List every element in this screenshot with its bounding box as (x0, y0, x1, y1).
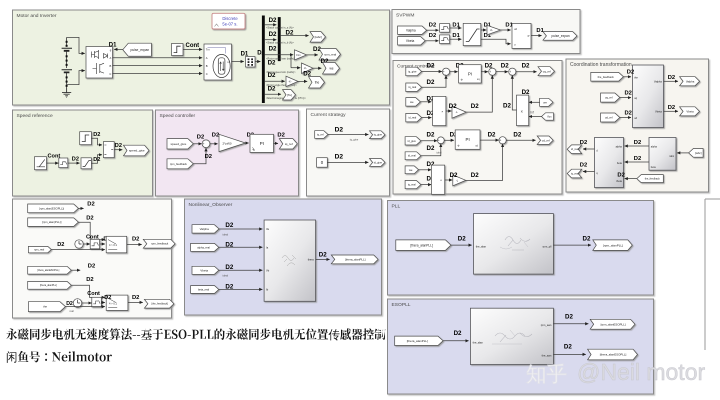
svg-text:we: we (329, 66, 333, 70)
rate transition 2 (440, 35, 450, 44)
svg-text:D2: D2 (205, 154, 212, 160)
svg-text:Cont: Cont (48, 154, 61, 160)
wire product1 to gain L (446, 110, 452, 112)
svg-text:Vbeta: Vbeta (406, 39, 415, 43)
svg-text:Vbeta: Vbeta (655, 110, 662, 114)
svg-text:D2: D2 (225, 264, 233, 271)
gain pole pairs -K- (302, 63, 314, 73)
svg-text:speed_give: speed_give (129, 149, 145, 153)
wire eso theta out (553, 353, 585, 355)
svg-text:PLL: PLL (392, 204, 401, 210)
svg-text:iq_give: iq_give (408, 69, 417, 73)
svg-text:D2: D2 (269, 31, 277, 38)
wire stator current is_b (265, 39, 277, 41)
from tag Vbeta obs (192, 266, 219, 274)
svg-text:alpha: alpha (651, 145, 658, 148)
svg-text:-K-: -K- (288, 80, 291, 83)
svg-text:ESOPLL: ESOPLL (392, 302, 411, 308)
wire Valpha to rate transition (427, 29, 439, 31)
sector calculation block (463, 23, 481, 45)
svg-text:D2: D2 (197, 135, 204, 141)
rate transition speed ref (59, 158, 68, 168)
svg-text:PI: PI (466, 137, 470, 142)
svg-text:alpha_real: alpha_real (197, 245, 210, 249)
svg-text:ud_ref: ud_ref (605, 116, 613, 120)
wire the_feedback to block (623, 76, 631, 78)
svg-text:D2: D2 (225, 283, 233, 290)
svg-text:D2: D2 (104, 295, 111, 301)
wire DC positive tap (67, 37, 85, 53)
svg-text:beta: beta (651, 166, 656, 169)
svg-text:we: we (410, 100, 414, 104)
svg-text:D2: D2 (427, 132, 435, 139)
svg-text:D2: D2 (225, 241, 233, 248)
from tag alpha_real obs (191, 243, 219, 251)
goto tag thera_alanESOPLL (588, 349, 638, 360)
from tag Vbeta svpwm (398, 37, 426, 45)
wire we to product3 (419, 169, 432, 171)
svg-text:B: B (206, 64, 208, 68)
from tag Valpha svpwm (398, 26, 427, 34)
from tag pulse_expan (123, 43, 152, 56)
svg-text:id_real: id_real (408, 116, 416, 120)
wire step to mux (91, 138, 102, 145)
svg-text:D2: D2 (87, 202, 94, 208)
product block we*flux (517, 95, 529, 126)
from tag we flux (540, 98, 553, 106)
wire gain to we tag (313, 67, 321, 69)
from tag iq_give cc (406, 67, 422, 76)
svg-text:D2: D2 (269, 45, 277, 52)
abc to alphabeta transform block (649, 138, 676, 171)
svg-text:the: the (634, 76, 638, 80)
gain Lq inductance (452, 106, 466, 118)
wire switch to rpm_feedback (127, 244, 142, 246)
wire Vbeta to observer (219, 269, 263, 271)
wire rotor angle (265, 80, 285, 82)
wire Fcn to rpm_real (307, 54, 318, 56)
alphabeta to dq transform block (595, 138, 624, 188)
svg-text:Fcn: Fcn (296, 54, 301, 57)
wire the pll to switch (71, 285, 105, 297)
svg-text:Valpha: Valpha (654, 80, 662, 84)
step block Cont source (172, 44, 184, 56)
panel Nonlinear_Observer (185, 199, 382, 315)
wire sum2 to sum3 (496, 71, 508, 73)
wire PI to iq_ref (274, 142, 279, 144)
gain Fcn rpm conversion (295, 50, 307, 60)
gain svpwm -K- (487, 25, 501, 35)
svg-text:rpm_feedback: rpm_feedback (151, 242, 169, 246)
svg-text:A: A (206, 56, 208, 60)
sum ud decouple (499, 137, 506, 146)
svg-text:ideal: ideal (223, 233, 229, 237)
svg-text:D2: D2 (86, 277, 93, 283)
sum id error (437, 137, 444, 145)
wire saturation to mux (91, 155, 102, 164)
wire rpm_feedback to sum (193, 148, 206, 164)
svg-text:we: we (409, 168, 413, 172)
from tag thera_alanPLL eso (395, 336, 443, 345)
bus selector demux block (246, 57, 256, 68)
svg-text:D2: D2 (429, 23, 436, 29)
wire theta to eso block (443, 340, 469, 342)
from tag thera_alan PLL (28, 281, 72, 289)
svg-text:pulse_expan: pulse_expan (130, 48, 149, 52)
wire id_real to product1 (422, 117, 432, 119)
wire gain to pwm subsystem (501, 29, 511, 31)
svg-text:D2: D2 (634, 156, 641, 162)
watermark zhihu @Neil motor (527, 364, 567, 384)
wire torque Te (265, 93, 281, 95)
gain angle -K- (286, 76, 298, 86)
wire clock to rate transition (83, 243, 90, 245)
svg-text:Motor and Inverter: Motor and Inverter (17, 13, 57, 19)
goto tag rpm_feedback (143, 239, 175, 248)
saturation block (81, 158, 91, 169)
svg-text:C: C (206, 72, 208, 76)
wire sum2d to ud_ref (506, 139, 535, 141)
svg-text:D2: D2 (503, 103, 511, 110)
svg-text:D2: D2 (450, 172, 458, 179)
wire we into product2 (529, 101, 540, 103)
wire Vbeta to rate transition (425, 40, 438, 42)
sum speed error (202, 140, 210, 149)
goto tag id_real ct (567, 145, 582, 154)
svg-text:the_feedback: the_feedback (598, 75, 615, 79)
svg-text:D1: D1 (452, 33, 460, 39)
from tag iabc ct (689, 149, 704, 158)
svg-text:[rpm_alanPLL]: [rpm_alanPLL] (603, 243, 623, 247)
svg-text:thera: thera (308, 258, 314, 262)
switch block rpm (106, 236, 127, 253)
goto tag iabc (310, 32, 326, 42)
mux switch block speed ref (103, 142, 114, 158)
svg-text:the_alan: the_alan (476, 245, 487, 249)
from tag uq_ref ct (601, 93, 620, 102)
ground symbol (62, 88, 71, 97)
svg-text:Nonlinear_Observer: Nonlinear_Observer (189, 202, 233, 208)
svg-text:D2: D2 (427, 79, 435, 86)
svg-text:id_real: id_real (408, 154, 416, 158)
goto tag iq_real ct (567, 169, 582, 178)
svg-text:D2: D2 (627, 70, 634, 76)
wire beta between blocks (625, 161, 649, 163)
svg-text:<Stator current is_b (A)>: <Stator current is_b (A)> (266, 40, 294, 44)
goto tag iq_ref (279, 139, 297, 149)
wire flux into product2 (529, 116, 542, 118)
svg-text:D2: D2 (86, 215, 93, 221)
clock block (75, 240, 83, 248)
goto tag id_give (370, 159, 386, 167)
svg-text:Vbeta: Vbeta (200, 268, 208, 272)
panel switch-select subsystem (13, 199, 172, 318)
powergui block Discrete 5e-07s (212, 13, 245, 29)
wire rt1 to sector block (450, 27, 462, 29)
from tag id_real cc (406, 113, 422, 122)
wire gain to PI speed (246, 142, 249, 144)
svg-text:2*pi/60: 2*pi/60 (222, 142, 231, 146)
svg-text:B: B (110, 64, 112, 68)
PI controller id (455, 130, 480, 149)
caption line 2: xianyu id Neilmotor (7, 351, 112, 363)
goto tag pulse_expan (543, 32, 577, 41)
rate transition sw1 (90, 239, 99, 249)
svg-text:Speed controller: Speed controller (160, 113, 196, 119)
wire the eso stub (71, 269, 80, 271)
wire DC negative tap (67, 71, 85, 85)
goto tag uq_ref (538, 67, 555, 76)
product block we*id (433, 96, 446, 125)
wire eso rpm out (553, 323, 588, 325)
from tag speed_give (167, 139, 193, 149)
wire id_give to sum1d (421, 140, 437, 142)
goto tag Valpha (680, 77, 700, 86)
panel Current controller (393, 61, 562, 195)
pwm generator subsystem (512, 23, 531, 48)
wire sector to gain (481, 29, 487, 31)
caption line 1: PMSM sensorless algorithm title (Chinese) (6, 328, 385, 340)
svg-text:D2: D2 (522, 63, 530, 70)
svg-text:5e-07 s.: 5e-07 s. (222, 22, 237, 27)
svg-text:D2: D2 (268, 86, 276, 93)
wire rpm pll to switch (78, 222, 105, 239)
wire id_real to sum1d (421, 144, 441, 156)
svg-text:D2: D2 (93, 157, 100, 163)
nonlinear observer block (264, 220, 316, 301)
from tag iq_real cc2 (405, 181, 421, 189)
wire iq_ref to iq_give (328, 134, 368, 136)
bus selector bar 1 (262, 16, 265, 104)
svg-text:D2: D2 (132, 295, 139, 301)
wire phase C (113, 73, 203, 75)
wire decouple to sum2 (466, 76, 492, 113)
svg-text:[thera_alanPLL]: [thera_alanPLL] (40, 284, 57, 287)
wire ramp to rate transition (47, 162, 59, 164)
wire sector low path (481, 39, 511, 44)
goto tag iq_give (370, 131, 386, 139)
PMSM motor block (204, 44, 232, 80)
from tag thera_alanPLL pll (396, 240, 451, 251)
svg-text:D2: D2 (319, 252, 327, 259)
svg-text:D2: D2 (471, 103, 479, 110)
svg-text:the: the (315, 80, 320, 84)
svg-text:D2: D2 (269, 17, 277, 24)
wire sum1d to PI d (444, 139, 454, 141)
svg-text:we: we (543, 100, 547, 104)
svg-text:PI: PI (260, 141, 264, 146)
svg-text:Vb: Vb (266, 268, 270, 272)
goto tag we (323, 62, 340, 74)
svg-text:flux: flux (548, 114, 553, 118)
wire iq_real to product3 (421, 184, 431, 186)
wire iq_real to sum1 (422, 76, 446, 88)
gain 2*pi/60 (219, 134, 246, 151)
svg-text:the_aan: the_aan (542, 353, 552, 357)
goto tag the (309, 77, 325, 89)
DC source battery stack (62, 37, 72, 88)
svg-text:D2: D2 (115, 143, 122, 149)
panel Motor and Inverter (13, 10, 390, 105)
svg-text:[thera_alanPLL]: [thera_alanPLL] (345, 258, 366, 262)
wire Vbeta out (664, 110, 679, 112)
svg-text:D2: D2 (458, 235, 466, 242)
from tag we cc2 (405, 166, 418, 174)
svg-text:D2: D2 (93, 132, 100, 138)
svg-text:D2: D2 (617, 172, 624, 178)
wire switch2 to the_feedback (128, 301, 143, 303)
svg-text:beta_real: beta_real (198, 288, 210, 292)
wire iabc mux out (281, 35, 309, 37)
svg-text:D2: D2 (580, 163, 587, 169)
svg-text:D2: D2 (268, 72, 276, 79)
svg-text:iq_ref: iq_ref (317, 132, 324, 136)
svg-text:D2: D2 (335, 127, 344, 134)
svg-text:iq_give: iq_give (374, 133, 383, 137)
wire rt2 to sector block (450, 38, 462, 40)
rate transition sw2 (92, 297, 102, 307)
wire pulse_expan to inverter g (114, 48, 123, 50)
svg-text:P: P (528, 34, 530, 38)
svg-text:real: real (70, 309, 75, 313)
wire pll block out (553, 244, 591, 246)
svg-text:D2: D2 (286, 30, 294, 37)
svg-text:D2: D2 (427, 63, 435, 70)
svg-text:D2: D2 (429, 33, 436, 39)
wire speed tap down (290, 55, 292, 68)
svg-text:[iabc]: [iabc] (695, 151, 702, 155)
wire pwm out (531, 35, 542, 37)
wire PId to sum2d (480, 139, 499, 141)
svg-text:Coordination transformation: Coordination transformation (570, 62, 632, 68)
svg-text:iq_real: iq_real (408, 183, 416, 187)
svg-text:rpm_aan: rpm_aan (541, 323, 552, 327)
svg-text:D1: D1 (109, 42, 117, 48)
dq to alphabeta transform block (633, 65, 664, 128)
svg-text:D2: D2 (513, 132, 521, 139)
svg-text:[thera_alanESOPLL]: [thera_alanESOPLL] (600, 353, 627, 357)
svg-text:D2: D2 (212, 133, 219, 139)
svg-text:[thera_alanPLL]: [thera_alanPLL] (407, 339, 428, 343)
wire alpha_real to observer (219, 246, 263, 248)
wire sum1 to PI q (450, 71, 458, 73)
wire sum3 to uq_ref (516, 71, 537, 73)
wire uq_ref to block (620, 97, 631, 99)
svg-text:iabc: iabc (670, 155, 675, 158)
svg-text:the_alan: the_alan (473, 340, 484, 344)
PLL subsystem block (474, 214, 554, 275)
goto tag thera_alanPLL obs (331, 255, 378, 264)
svg-text:[thera_alanESOPLL]: [thera_alanESOPLL] (37, 269, 59, 272)
from tag id_give cc (405, 137, 421, 145)
svg-text:rpm_feedback: rpm_feedback (170, 162, 188, 166)
svg-text:the_feedback: the_feedback (645, 178, 661, 181)
from tag iq_real cc (406, 83, 422, 92)
wire rpm eso stub (78, 207, 83, 209)
wire Valpha to observer (219, 228, 262, 230)
svg-text:D2: D2 (668, 75, 675, 81)
svg-text:@Neil motor: @Neil motor (577, 359, 705, 385)
goto tag rpm_real (319, 49, 341, 61)
wire iq_give to sum1 (422, 71, 442, 73)
svg-text:D2: D2 (488, 132, 496, 139)
svg-text:D2: D2 (132, 237, 139, 243)
svg-text:[rpm_alan(ESOPLL)]: [rpm_alan(ESOPLL)] (39, 206, 64, 210)
from tag the_feedback ct (591, 72, 624, 81)
clock block 2 (73, 299, 82, 308)
svg-text:Inf: Inf (530, 111, 534, 115)
svg-text:D2: D2 (501, 63, 509, 70)
panel Current strategy (307, 109, 390, 196)
svg-text:[rpm_alan(PLL)]: [rpm_alan(PLL)] (42, 220, 62, 224)
wire PIq to sum2 (481, 71, 488, 73)
svg-text:rpm_real: rpm_real (324, 52, 336, 56)
junction speed tap (290, 54, 292, 56)
panel SVPWM (392, 10, 580, 54)
wire mux to speed_give (114, 149, 122, 151)
svg-text:D2: D2 (454, 330, 462, 337)
from tag thera_alan ESOPLL (28, 266, 72, 274)
panel Coordination transformation (566, 59, 709, 192)
goto tag Vbeta (680, 107, 700, 116)
svg-text:Vbeta: Vbeta (686, 109, 694, 113)
svg-text:D2: D2 (668, 105, 675, 111)
svg-text:iq_real: iq_real (571, 173, 579, 176)
wire clock2 to rt (82, 302, 92, 304)
wire iabc into block (677, 152, 689, 154)
wire beta_real to observer (219, 288, 263, 290)
svg-text:Valpha: Valpha (406, 28, 416, 32)
svg-text:[rpm_alanESOPLL]: [rpm_alanESOPLL] (601, 322, 626, 326)
wire phase A (113, 57, 203, 59)
wire zero to id_give (327, 161, 368, 163)
switch block theta (106, 295, 128, 310)
ESOPLL subsystem block (470, 308, 553, 364)
wire theta to pll block (451, 244, 472, 246)
wire step to motor Tm (183, 48, 202, 50)
svg-text:D2: D2 (522, 89, 530, 96)
svg-text:D2: D2 (57, 242, 64, 248)
goto tag Te (283, 90, 296, 100)
svg-text:[the_feedback]: [the_feedback] (151, 303, 168, 306)
wire product2 to sum3 (512, 76, 516, 111)
svg-text:D2: D2 (449, 103, 457, 110)
partial panel at right edge (705, 199, 720, 350)
wire rotor speed to Fcn (265, 54, 293, 56)
from tag rpm_feedback (167, 159, 193, 169)
svg-text:D2: D2 (634, 140, 641, 146)
wire speed_give to sum (193, 143, 201, 145)
wire rpm_real to switch (51, 249, 105, 251)
svg-text:alpha: alpha (616, 145, 623, 148)
svg-text:D2: D2 (72, 157, 79, 163)
from tag Valpha obs (192, 225, 219, 233)
svg-text:iq_give: iq_give (350, 138, 359, 142)
wire Valpha out (664, 80, 679, 82)
wire stator current is_a (265, 24, 277, 26)
panel Speed reference (13, 110, 153, 196)
svg-text:Valpha: Valpha (200, 227, 209, 231)
goto tag ud_ref (537, 136, 553, 145)
svg-text:theta: theta (616, 180, 622, 183)
wire ud_ref to block (620, 117, 631, 119)
svg-text:C: C (109, 72, 111, 76)
svg-text:uq_ref: uq_ref (543, 69, 551, 73)
svg-text:D2: D2 (565, 314, 573, 321)
wire demux to bus bar (255, 61, 260, 63)
wire phase B (113, 65, 203, 67)
svg-text:D2: D2 (335, 153, 344, 160)
